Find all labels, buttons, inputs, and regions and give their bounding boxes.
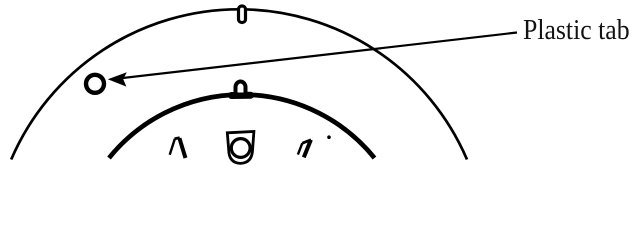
bracket hole circle bbox=[231, 139, 250, 158]
inner base circle bbox=[109, 95, 375, 158]
arrowhead bbox=[108, 72, 127, 86]
outer cover circle bbox=[11, 9, 467, 159]
plastic tab hole bbox=[86, 75, 104, 93]
right slot mark bbox=[298, 140, 311, 158]
slot tab on outer rim bbox=[239, 6, 246, 23]
tab base bulge on inner circle bbox=[232, 92, 251, 99]
center bracket bbox=[227, 132, 254, 164]
leader line bbox=[122, 33, 517, 79]
tab on inner circle bbox=[236, 82, 246, 93]
left slot mark bbox=[170, 138, 186, 158]
label: Plastic tab bbox=[523, 16, 630, 45]
molding dot bbox=[327, 135, 331, 139]
